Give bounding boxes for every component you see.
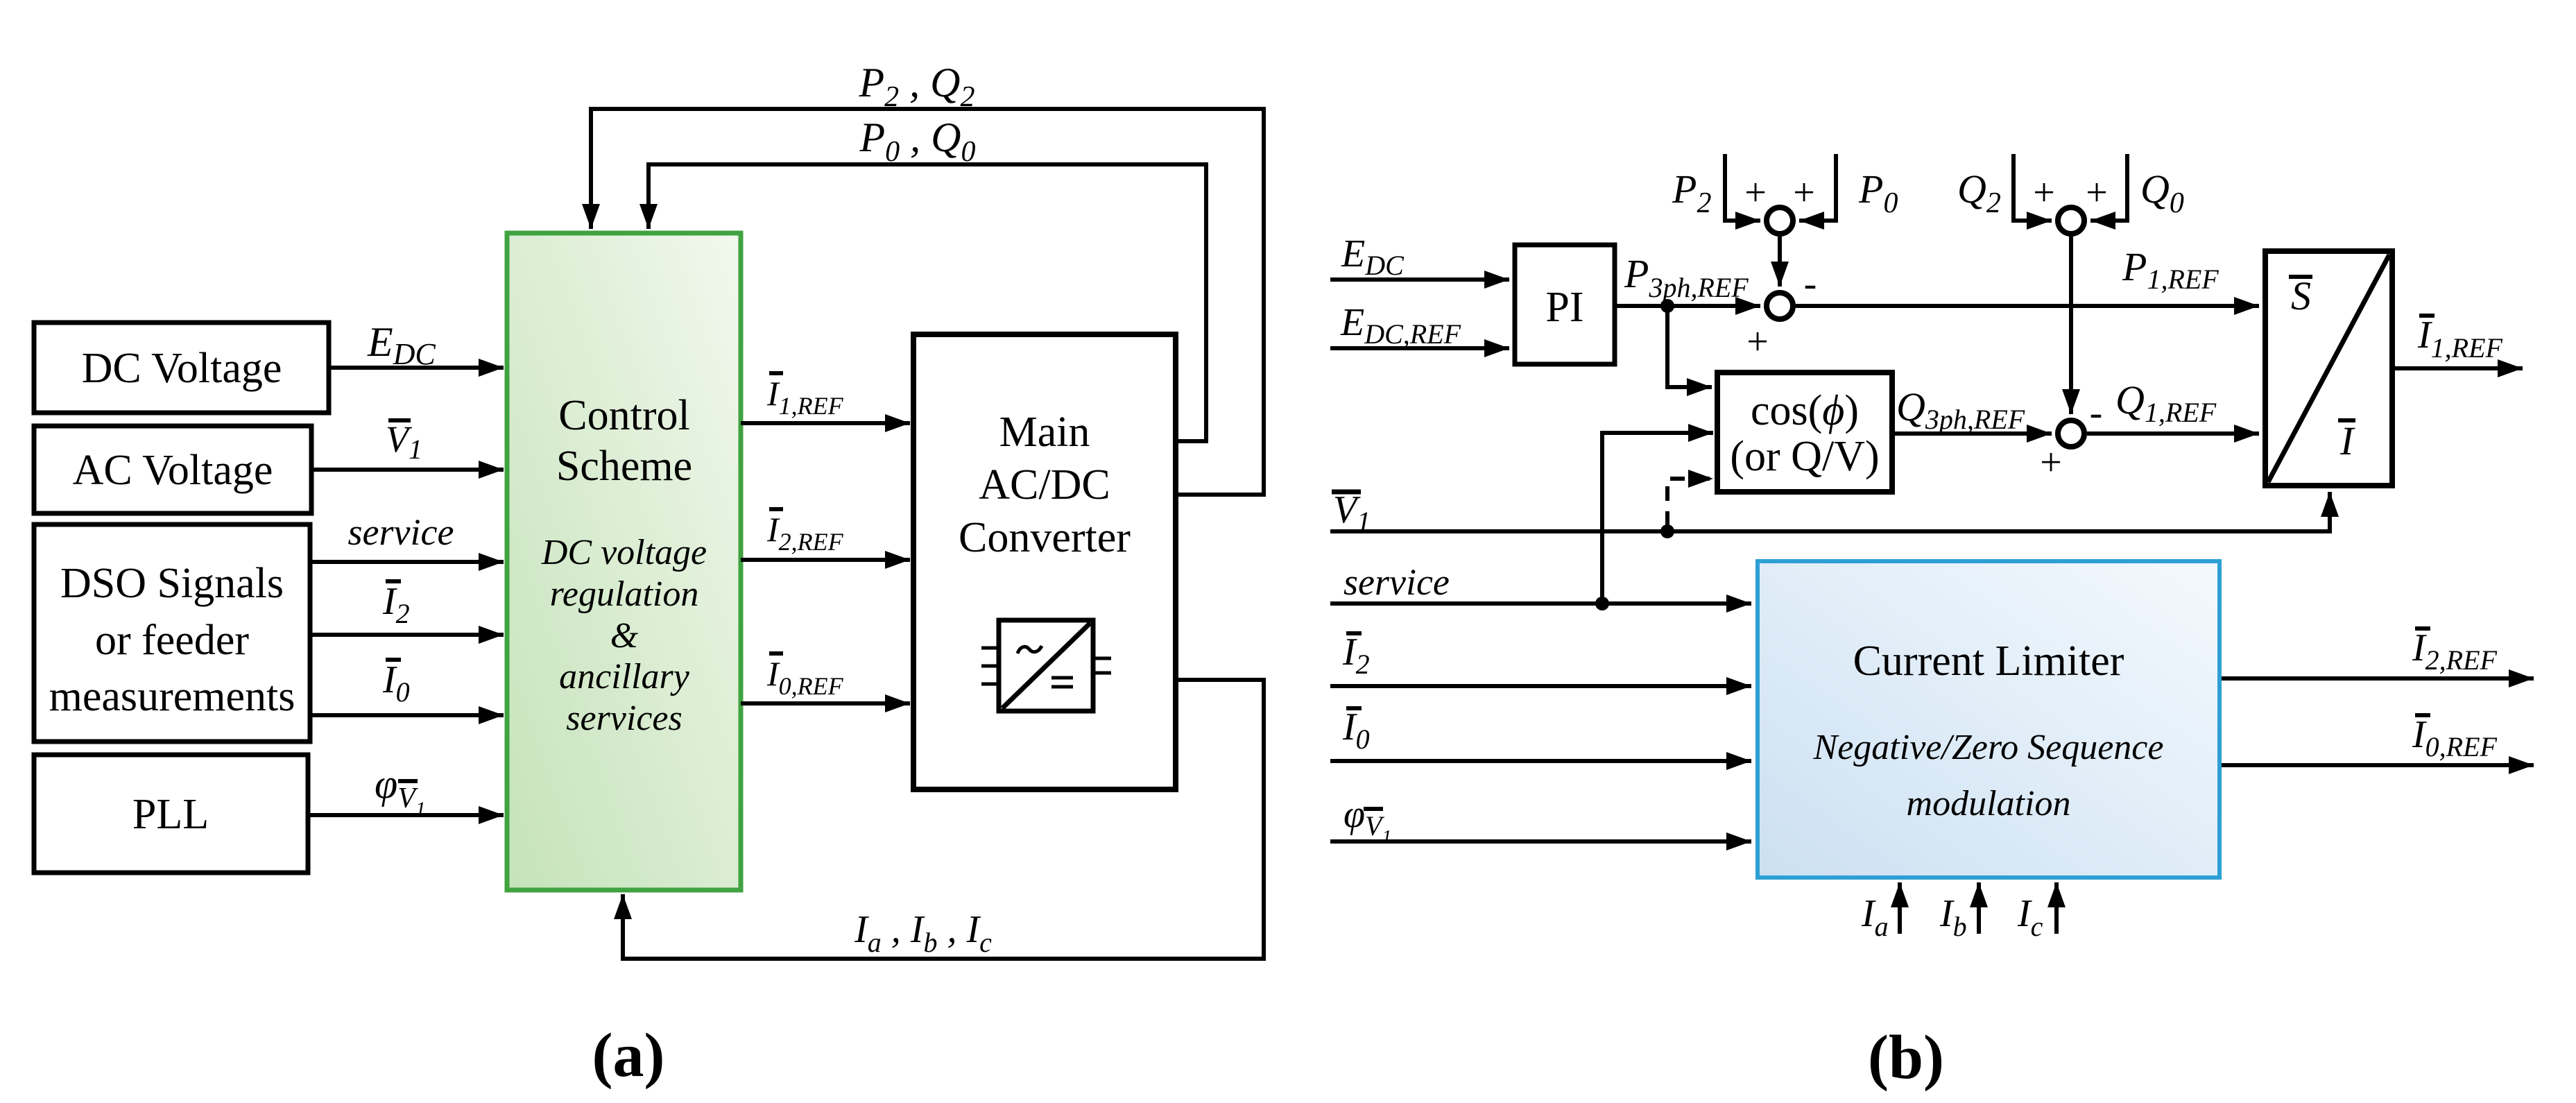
svg-text:Negative/Zero Sequence: Negative/Zero Sequence [1813, 728, 2164, 767]
svg-text:-: - [1804, 262, 1817, 305]
svg-text:cos(ϕ): cos(ϕ) [1751, 387, 1859, 434]
svg-text:Current Limiter: Current Limiter [1853, 638, 2124, 685]
svg-text:Control: Control [558, 392, 689, 439]
svg-text:S: S [2291, 273, 2311, 318]
svg-text:AC Voltage: AC Voltage [73, 447, 273, 494]
svg-text:(or Q/V): (or Q/V) [1730, 433, 1879, 480]
svg-text:&: & [610, 616, 639, 656]
svg-text:P0 , Q0: P0 , Q0 [859, 114, 976, 168]
svg-text:measurements: measurements [49, 673, 295, 720]
svg-text:service: service [1343, 561, 1450, 603]
svg-text:Converter: Converter [959, 514, 1131, 561]
svg-text:+: + [2040, 441, 2062, 484]
svg-text:DC voltage: DC voltage [541, 533, 707, 572]
svg-text:DSO Signals: DSO Signals [60, 560, 284, 607]
svg-text:(a): (a) [592, 1021, 665, 1090]
svg-text:+: + [1793, 171, 1815, 214]
svg-text:+: + [2033, 171, 2055, 214]
svg-text:+: + [1746, 320, 1769, 364]
svg-text:services: services [566, 699, 682, 738]
svg-text:I: I [2339, 418, 2355, 463]
svg-text:or feeder: or feeder [95, 617, 249, 664]
svg-text:DC Voltage: DC Voltage [82, 345, 282, 392]
svg-text:modulation: modulation [1907, 784, 2071, 823]
svg-text:PI: PI [1545, 284, 1583, 331]
svg-text:Scheme: Scheme [556, 443, 692, 490]
svg-text:AC/DC: AC/DC [979, 461, 1110, 508]
svg-text:+: + [1744, 171, 1767, 214]
svg-text:+: + [2086, 171, 2108, 214]
svg-text:-: - [2090, 391, 2103, 434]
svg-text:service: service [348, 511, 454, 553]
svg-text:PLL: PLL [132, 791, 209, 838]
svg-text:P2 , Q2: P2 , Q2 [859, 60, 975, 113]
svg-text:(b): (b) [1868, 1023, 1944, 1092]
svg-text:Main: Main [999, 409, 1090, 456]
svg-text:ancillary: ancillary [559, 657, 690, 696]
svg-text:regulation: regulation [550, 574, 699, 614]
